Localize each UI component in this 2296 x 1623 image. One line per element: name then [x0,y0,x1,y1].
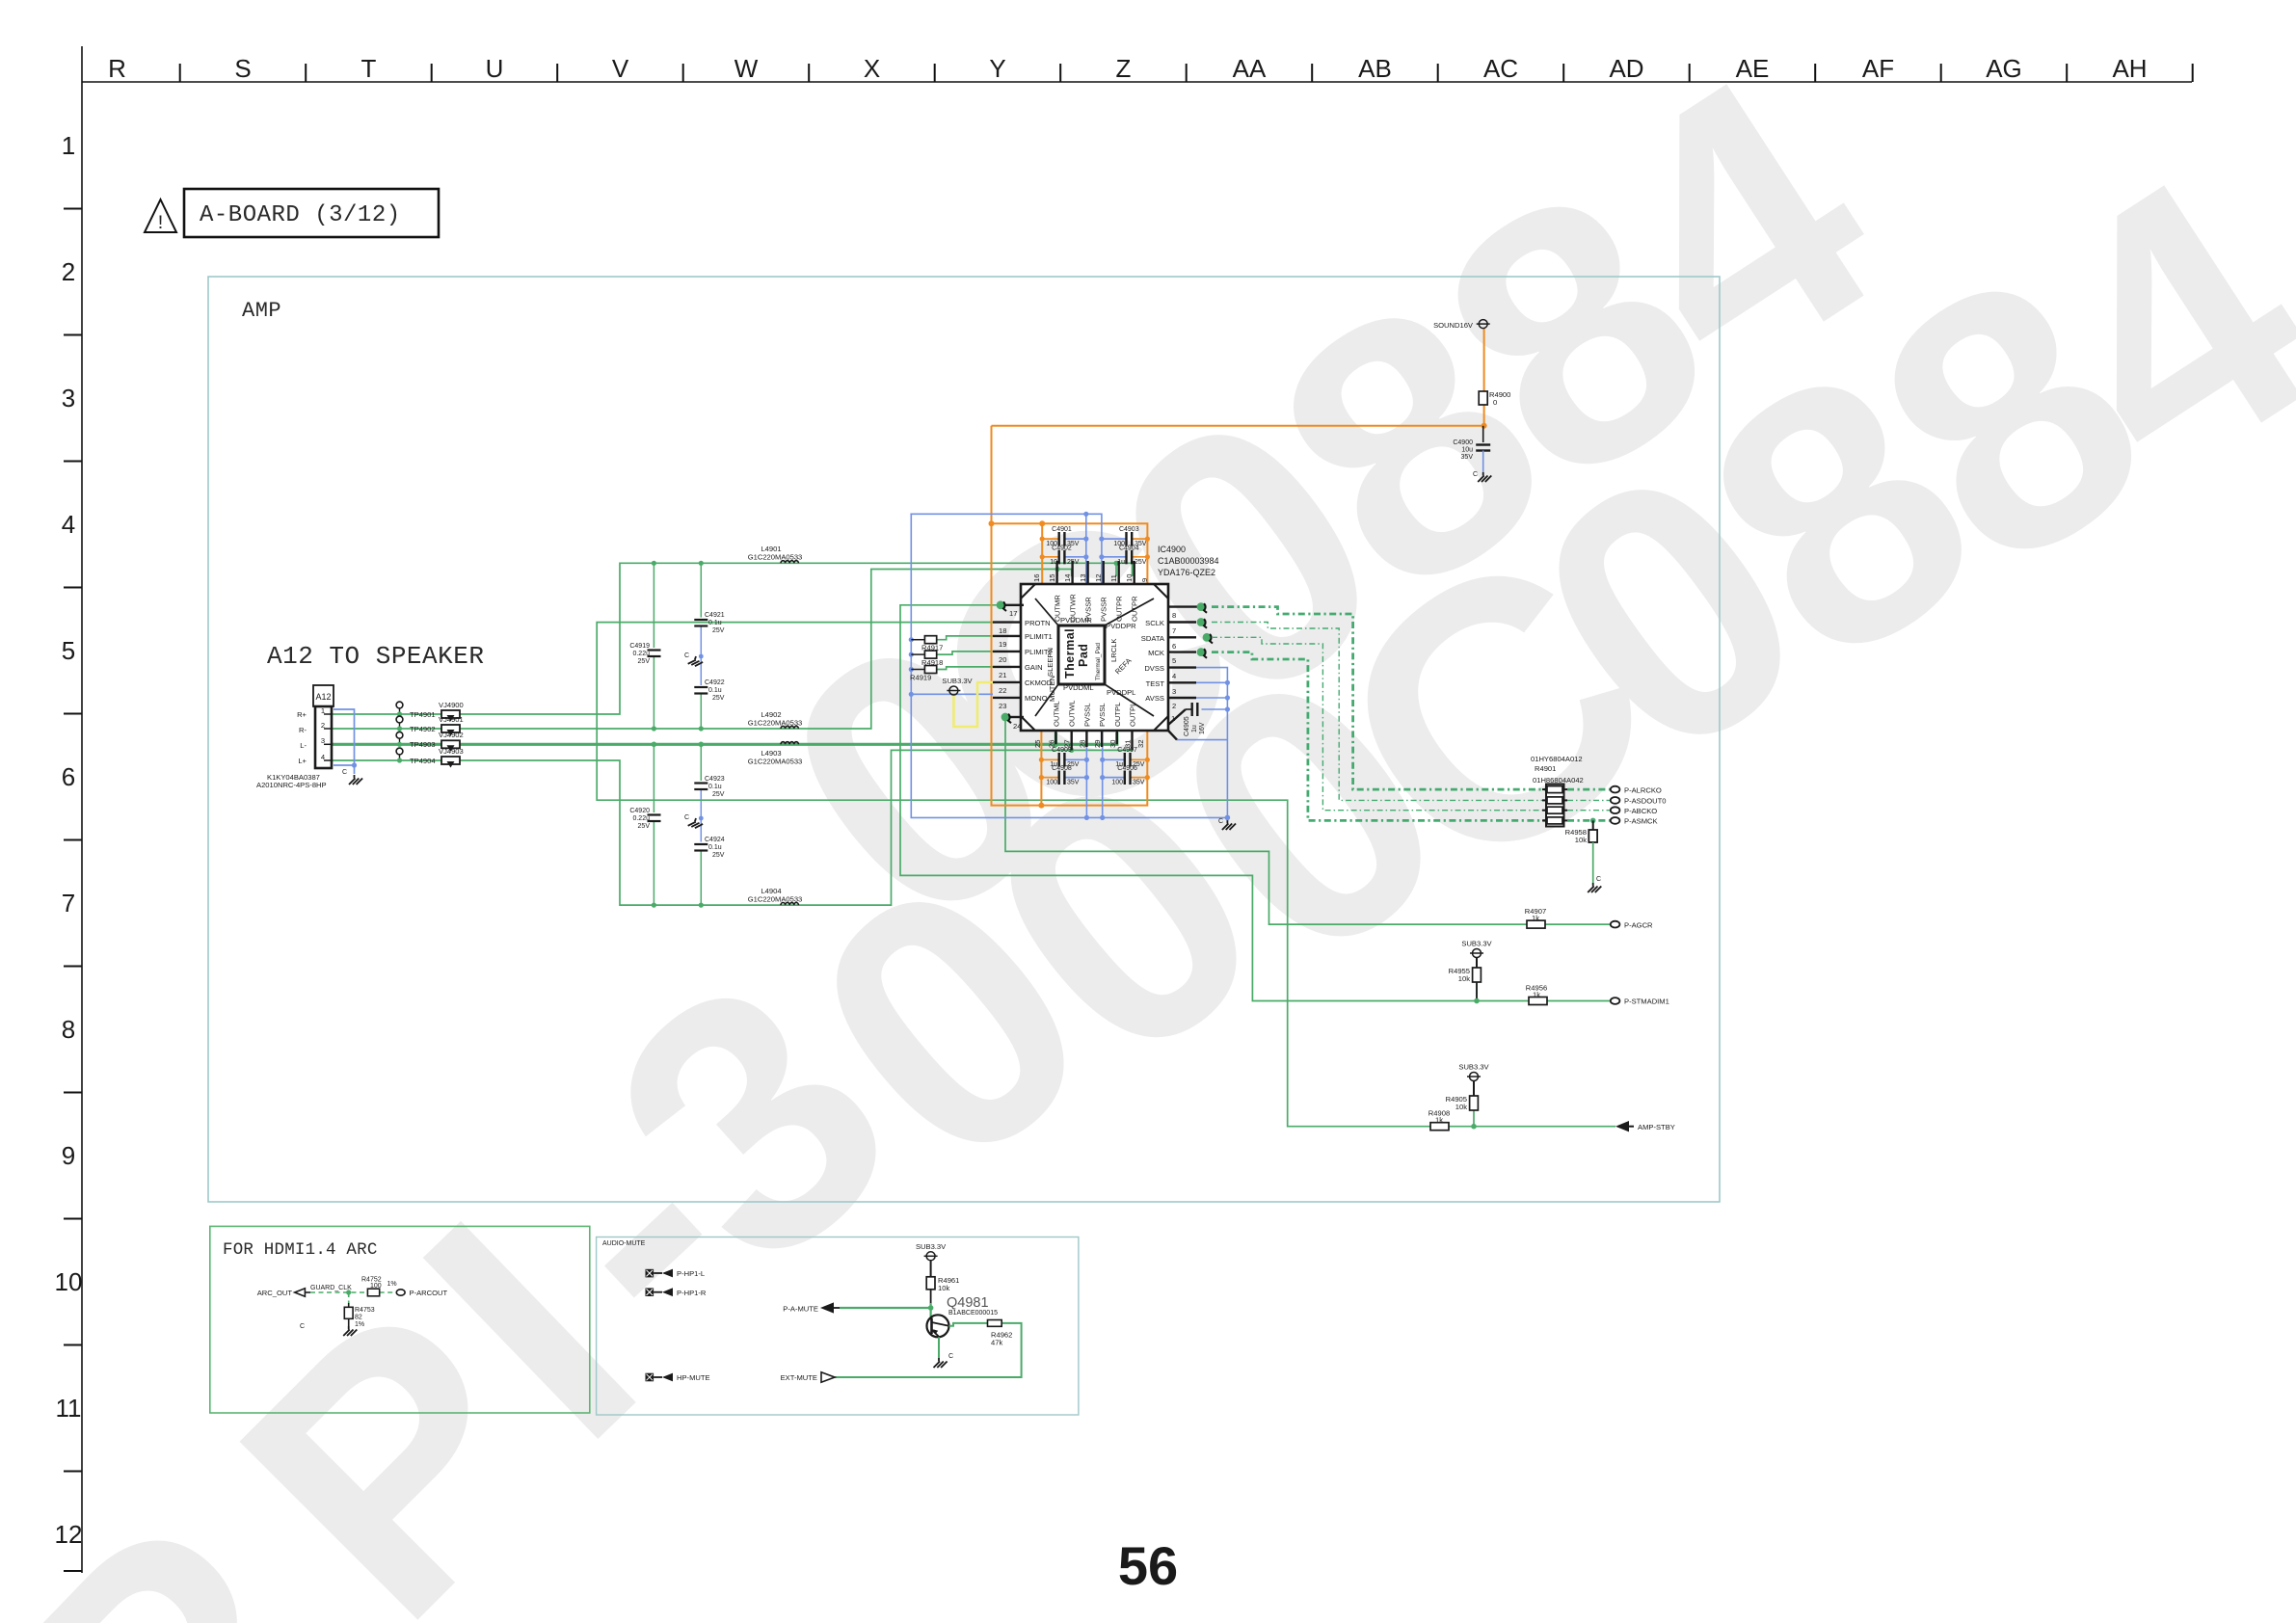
svg-text:P-HP1-L: P-HP1-L [677,1269,705,1278]
svg-text:C4922: C4922 [705,679,725,686]
svg-text:1k: 1k [1533,991,1540,999]
svg-text:Thermal: Thermal [1063,628,1077,678]
wire pin24 net to P-AGCR [1005,721,1611,924]
svg-text:Z: Z [1116,54,1132,83]
svg-text:7: 7 [62,889,75,918]
svg-text:AB: AB [1358,54,1392,83]
svg-text:1%: 1% [355,1321,364,1328]
node EXT-MUTE [781,1372,835,1382]
jumper VJ4901 [439,715,464,736]
pin 5 green circle [1197,648,1207,658]
node ARC_OUT [257,1289,310,1297]
svg-text:23: 23 [999,702,1006,710]
svg-text:AVSS: AVSS [1145,694,1164,703]
svg-text:SUB3.3V: SUB3.3V [1461,940,1492,948]
svg-text:24: 24 [1013,722,1021,731]
svg-text:C4919: C4919 [629,643,650,650]
svg-text:3: 3 [62,384,75,412]
svg-text:35V: 35V [1461,454,1474,461]
node P-STMADIM1 [1611,998,1669,1006]
svg-text:5: 5 [1172,656,1176,665]
node P-A-MUTE [783,1302,840,1313]
svg-text:4: 4 [1172,672,1176,680]
node P-HP1-R [646,1288,707,1297]
svg-text:22: 22 [999,686,1006,695]
capacitor C4909 [1050,747,1080,768]
svg-text:C: C [1596,876,1601,883]
svg-text:2: 2 [1172,702,1176,710]
svg-text:0: 0 [1493,398,1497,407]
capacitor C4901 [1046,526,1079,547]
ground (Q4981) [934,1353,954,1368]
ic IC4900 YDA176-QZE2 body [1021,584,1168,731]
svg-text:VJ4902: VJ4902 [439,731,464,739]
IC left pin numbers and labels [999,609,1053,731]
resistor R4905 [1446,1095,1479,1129]
svg-text:GUARD_CLK: GUARD_CLK [310,1285,352,1291]
svg-text:!: ! [154,213,166,235]
svg-text:V: V [612,54,629,83]
resistor array R4901 [1531,755,1584,827]
svg-text:SUB3.3V: SUB3.3V [942,677,973,685]
IC4900 part labels [1158,545,1219,577]
capacitor C4921 [694,612,724,634]
svg-text:PVDDPL: PVDDPL [1107,688,1135,697]
svg-text:VJ4903: VJ4903 [439,747,464,756]
svg-text:OUTPR: OUTPR [1115,596,1124,622]
svg-text:C4921: C4921 [705,612,725,619]
svg-text:G1C220MA0533: G1C220MA0533 [748,895,803,904]
svg-text:OUTPR: OUTPR [1131,596,1139,622]
svg-text:AF: AF [1862,54,1894,83]
resistor R4908 [1428,1109,1450,1131]
svg-text:AC: AC [1483,54,1518,83]
resistor R4900 [1479,390,1510,407]
wire blue segments of filter columns with grounds [700,626,702,842]
svg-text:10k: 10k [938,1284,949,1292]
svg-text:Q4981: Q4981 [947,1295,989,1311]
svg-text:PVSSL: PVSSL [1082,704,1091,727]
svg-text:C4902: C4902 [1052,545,1072,552]
svg-text:25V: 25V [638,823,651,830]
node P-ASDOUT0 [1611,797,1667,806]
junction dot A12 blue [352,762,357,767]
svg-text:0.1u: 0.1u [708,844,722,851]
svg-text:P-ARCOUT: P-ARCOUT [410,1289,448,1297]
IC inner diagonal labels [1046,616,1136,702]
wire filter column C4921..C4924 [700,563,702,905]
svg-text:EXT-MUTE: EXT-MUTE [781,1373,817,1382]
power symbol SUB3.3V (R4955) [1461,940,1492,969]
inductor L4904 [748,887,803,905]
svg-text:10: 10 [1125,574,1134,582]
svg-text:TP4902: TP4902 [410,725,436,733]
svg-text:5: 5 [62,636,75,665]
svg-text:28: 28 [1078,740,1086,748]
svg-text:FOR HDMI1.4 ARC: FOR HDMI1.4 ARC [223,1240,378,1260]
svg-text:C4905: C4905 [1184,716,1190,736]
svg-text:0.22u: 0.22u [632,651,650,657]
capacitor C4919 [629,643,660,665]
svg-text:30: 30 [1108,740,1117,748]
svg-text:SUB3.3V: SUB3.3V [916,1242,947,1251]
svg-text:35V: 35V [1067,780,1080,786]
svg-text:MUTEN: MUTEN [1048,676,1056,702]
power symbol SOUND16V [1433,320,1490,330]
svg-text:B1ABCE000015: B1ABCE000015 [948,1310,998,1317]
svg-text:AE: AE [1736,54,1770,83]
svg-text:DVSS: DVSS [1144,664,1164,673]
svg-text:25V: 25V [712,695,725,702]
svg-text:SLEEPN: SLEEPN [1046,648,1055,677]
svg-text:0.1u: 0.1u [708,687,722,694]
svg-text:MCK: MCK [1148,649,1164,657]
transistor Q4981 [927,1295,999,1337]
svg-text:OUTWL: OUTWL [1068,701,1077,727]
capacitor C4902 [1050,545,1080,567]
svg-text:R4901: R4901 [1535,764,1556,773]
test point TP4901 [396,702,436,719]
svg-text:PVDDML: PVDDML [1063,683,1094,692]
svg-text:C: C [684,814,689,821]
wire collector to R4962 and EXT-MUTE loop [835,1323,1022,1377]
svg-text:01HY6804A012: 01HY6804A012 [1531,755,1583,763]
svg-text:56: 56 [1118,1535,1178,1596]
orange junction dots [989,423,1487,809]
wire quad cap leads bottom [1041,759,1147,777]
wire L- net (thick, speaker L- to L4903 to pins 26/30) [332,732,1117,744]
svg-text:10k: 10k [1575,836,1587,844]
svg-text:C: C [1473,471,1478,478]
resistor R4919 [910,666,937,682]
svg-text:11: 11 [56,1394,82,1423]
jumper VJ4902 [439,731,464,752]
svg-text:C4924: C4924 [705,837,725,843]
ground (C4900) [1473,471,1491,482]
svg-text:19: 19 [999,640,1006,649]
svg-text:1k: 1k [1532,914,1539,922]
svg-text:Y: Y [989,54,1005,83]
wire Q4981 emitter to ground [938,1337,940,1358]
svg-text:TP4901: TP4901 [410,710,436,719]
title box A-BOARD (3/12) [184,189,439,237]
svg-text:11: 11 [1109,574,1118,582]
IC right pin numbers and labels [1141,611,1176,723]
pin 8 green circle [1197,602,1207,613]
svg-text:4: 4 [62,510,75,539]
junction dots filter rails [652,561,1119,908]
svg-text:P-ALRCKO: P-ALRCKO [1624,785,1662,794]
resistor R4961 [926,1276,959,1311]
svg-text:R+: R+ [297,710,307,719]
capacitor C4920 [629,808,660,830]
IC top pin stubs 16..9 [1057,561,1135,584]
svg-text:VJ4901: VJ4901 [439,715,464,724]
svg-text:100: 100 [1111,780,1123,786]
svg-text:A12: A12 [315,692,331,702]
node P-HP1-L [646,1269,706,1279]
svg-text:LRCLK: LRCLK [1109,639,1118,662]
svg-text:25V: 25V [1067,559,1080,566]
node P-AGCR [1611,920,1653,929]
svg-text:PLIMIT1: PLIMIT1 [1025,632,1053,641]
svg-text:13: 13 [1079,574,1087,582]
svg-text:C4908: C4908 [1052,765,1072,772]
wire quad cap leads top [1042,539,1147,557]
svg-text:T: T [361,54,377,83]
svg-text:9: 9 [62,1141,75,1170]
svg-text:AMP: AMP [242,299,281,323]
node P-ABCKO [1611,807,1657,815]
wire pin17 net to P-STMADIM1 [900,605,1611,1001]
svg-text:SOUND16V: SOUND16V [1433,321,1474,330]
svg-text:G1C220MA0533: G1C220MA0533 [748,553,803,562]
svg-text:C4901: C4901 [1052,526,1072,533]
svg-text:SDATA: SDATA [1141,634,1165,643]
svg-text:PVSSR: PVSSR [1100,597,1108,622]
svg-text:25V: 25V [712,627,725,634]
svg-text:AA: AA [1233,54,1267,83]
node P-ASMCK [1611,817,1658,826]
svg-text:C4906: C4906 [1117,765,1137,772]
ground (filter column upper) [684,652,704,668]
resistor R4752 [361,1277,397,1296]
power symbol SUB3.3V (Q4981) [916,1242,947,1277]
jumper VJ4900 [439,701,464,722]
svg-text:C: C [1218,818,1223,825]
ground (R4753) [300,1323,357,1336]
svg-text:16: 16 [1032,574,1041,582]
svg-text:2: 2 [62,257,75,286]
svg-text:L+: L+ [298,757,307,765]
svg-text:L-: L- [300,741,307,750]
svg-text:TEST: TEST [1146,679,1165,688]
svg-text:MONO: MONO [1025,694,1048,703]
svg-text:OUTPL: OUTPL [1129,703,1137,727]
capacitor C4908 [1046,765,1079,786]
power symbol SUB3.3V (near IC) [942,677,973,695]
wire dash-dot P-ABCKO (from pin 6) [1212,637,1610,810]
svg-text:C1AB00003984: C1AB00003984 [1158,556,1219,566]
svg-text:PVDDMR: PVDDMR [1060,616,1092,625]
wire P-A-MUTE green [840,1303,931,1317]
svg-text:P-A-MUTE: P-A-MUTE [783,1305,818,1314]
svg-text:R-: R- [299,726,307,734]
svg-text:1: 1 [62,131,75,160]
svg-text:AMP-STBY: AMP-STBY [1638,1123,1675,1131]
resistor R4958 with ground [1565,818,1597,883]
svg-text:32: 32 [1136,740,1145,748]
ground (A12) [342,769,362,785]
svg-text:SCLK: SCLK [1145,619,1164,627]
svg-text:47k: 47k [991,1339,1002,1347]
svg-text:P-HP1-R: P-HP1-R [677,1289,707,1297]
wire PROTN pin18 net to AMP-STBY [597,623,1615,1127]
svg-text:25V: 25V [638,658,651,665]
resistor R4955 [1449,967,1482,1003]
wire dash-dot P-ASDOUT0 (from pin 7) [1212,623,1610,801]
svg-text:P-ASMCK: P-ASMCK [1624,817,1658,826]
svg-text:35V: 35V [1133,780,1145,786]
svg-text:20: 20 [999,655,1006,664]
node AUDIO-MUTE block [597,1237,1079,1416]
resistor R4753 with ground [344,1303,374,1328]
resistor R4956 [1526,984,1547,1005]
svg-text:0.1u: 0.1u [708,620,722,626]
svg-text:25: 25 [1033,740,1042,748]
svg-text:25V: 25V [712,852,725,859]
pin 7 green circle [1197,618,1207,628]
wire L+ net (speaker L+ to L4904 to pins 27/31) [332,732,1133,905]
node HP-MUTE [646,1373,710,1383]
svg-text:100: 100 [1046,780,1057,786]
wire dash-dot P-ASMCK (bold, from pin 5) [1212,652,1610,821]
svg-text:0.22u: 0.22u [632,815,650,822]
wire R+ net (speaker R+ to L4901 to OUTPR pins) [332,563,1133,714]
svg-text:25V: 25V [1135,559,1147,566]
svg-text:C: C [342,769,347,776]
capacitor C4903 [1113,526,1146,547]
wire dash-dot P-ALRCKO (bold, from pin 8) [1212,607,1610,790]
svg-text:R4753: R4753 [355,1307,375,1314]
svg-text:25V: 25V [712,791,725,798]
svg-text:P-STMADIM1: P-STMADIM1 [1624,998,1669,1006]
svg-text:HP-MUTE: HP-MUTE [677,1373,710,1382]
wire R4917/18/19 jogs to pins 19/20/21 [937,636,993,670]
svg-text:1u: 1u [1117,559,1125,566]
node AMP block [208,277,1720,1202]
svg-text:P-ASDOUT0: P-ASDOUT0 [1624,797,1666,806]
svg-text:C: C [300,1323,305,1330]
svg-text:YDA176-QZE2: YDA176-QZE2 [1158,568,1215,577]
svg-text:21: 21 [999,671,1006,679]
power symbol SUB3.3V (R4905) [1458,1063,1489,1097]
IC right pin stubs 8..1 [1168,607,1201,740]
svg-text:G1C220MA0533: G1C220MA0533 [748,719,803,728]
svg-text:3: 3 [1172,687,1176,696]
svg-text:7: 7 [1172,626,1176,635]
svg-text:C4903: C4903 [1119,526,1139,533]
svg-text:PVDDPR: PVDDPR [1106,622,1136,630]
svg-text:PROTN: PROTN [1025,619,1051,627]
svg-text:C4920: C4920 [629,808,650,814]
inductor L4902 [748,710,803,729]
svg-text:R: R [108,54,126,83]
wire R- net (speaker R- to L4902 to OUTMR/OUTWR pins) [332,570,1072,730]
svg-text:IC4900: IC4900 [1158,545,1186,554]
svg-text:C4904: C4904 [1119,545,1139,552]
pin 6 green circle [1203,633,1213,644]
svg-text:TP4903: TP4903 [410,740,436,749]
blue junction dots [909,512,1230,821]
svg-text:8: 8 [62,1015,75,1044]
pin 17 green circle [997,600,1006,611]
svg-text:12: 12 [1094,574,1103,582]
wire GUARD_CLK dashed [310,1292,396,1303]
svg-text:P-ABCKO: P-ABCKO [1624,807,1657,815]
svg-text:C4909: C4909 [1052,747,1072,754]
svg-text:10: 10 [1050,559,1057,566]
svg-text:VJ4900: VJ4900 [439,701,464,709]
jumper VJ4903 [439,747,464,768]
svg-text:GAIN: GAIN [1025,663,1043,672]
test point TP4904 [396,748,436,765]
svg-text:8: 8 [1172,611,1176,620]
svg-text:0.1u: 0.1u [708,784,722,790]
svg-text:OUTML: OUTML [1052,701,1060,727]
svg-text:A2010NRC-4PS-8HP: A2010NRC-4PS-8HP [256,781,327,789]
IC bottom pin stubs 25..32 [1055,731,1132,750]
capacitor C4907 [1115,747,1145,768]
svg-text:U: U [486,54,504,83]
capacitor C4923 [694,776,724,798]
IC bottom pin numbers [1033,740,1145,748]
wire A12 blue ground loop [334,709,355,774]
ground (blue rail at IC right) [1218,818,1236,830]
svg-text:1%: 1% [387,1281,397,1288]
test point TP4902 [396,716,436,733]
svg-text:17: 17 [1009,609,1017,618]
svg-text:6: 6 [1172,642,1176,651]
capacitor C4906 [1111,765,1144,786]
capacitor C4922 [694,679,724,702]
node P-ARCOUT [396,1289,447,1297]
svg-text:18: 18 [999,626,1006,635]
pin 24 green circle [1001,713,1011,724]
svg-text:10u: 10u [1461,447,1473,454]
svg-text:PVSSL: PVSSL [1098,704,1107,727]
wire yellow CKMOD net [953,682,993,727]
svg-text:12: 12 [55,1520,83,1549]
svg-text:10k: 10k [1458,974,1470,983]
svg-text:Pad: Pad [1077,644,1090,667]
svg-text:C4907: C4907 [1117,747,1137,754]
node A12 TO SPEAKER heading [267,642,484,671]
svg-text:TP4904: TP4904 [410,757,436,765]
wire blue pins 4/3/2 to ground rail [1177,668,1227,818]
node GUARD_CLK label and junction [310,1285,352,1295]
svg-text:C4900: C4900 [1453,439,1473,446]
svg-text:G1C220MA0533: G1C220MA0533 [748,758,803,766]
svg-text:C: C [948,1353,953,1360]
resistor R4918 [911,651,943,667]
node AMP-STBY [1615,1121,1675,1131]
svg-text:AG: AG [1986,54,2022,83]
svg-text:1: 1 [1171,714,1175,723]
resistor R4962 [988,1320,1013,1347]
svg-text:14: 14 [1063,574,1072,582]
connector A12 [256,685,334,789]
svg-text:R4919: R4919 [910,674,931,682]
svg-text:S: S [234,54,251,83]
ground (filter column lower) [684,814,704,830]
IC top inner labels [1054,594,1139,622]
svg-text:C: C [684,652,689,659]
inductor L4901 [748,545,803,563]
test point TP4903 [396,732,436,749]
node FOR HDMI1.4 ARC block [210,1226,590,1413]
page number 56 [1118,1535,1178,1596]
svg-text:29: 29 [1093,740,1102,748]
resistor R4917 [911,636,943,652]
svg-text:15: 15 [1048,574,1056,582]
ground (R4958) [1588,876,1601,892]
svg-text:W: W [734,54,759,83]
svg-text:1u: 1u [1191,725,1198,732]
svg-text:1k: 1k [1435,1116,1443,1125]
svg-text:16V: 16V [1199,722,1206,734]
svg-text:ARC_OUT: ARC_OUT [257,1289,293,1297]
